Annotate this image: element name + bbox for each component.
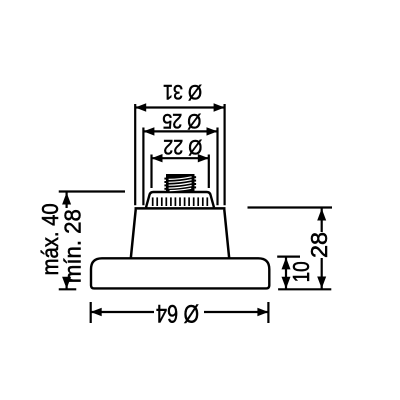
svg-text:Ø 64: Ø 64: [156, 299, 199, 327]
svg-text:mín. 28: mín. 28: [60, 209, 86, 283]
svg-text:Ø 25: Ø 25: [162, 109, 201, 132]
svg-text:28: 28: [306, 232, 332, 258]
svg-text:Ø 31: Ø 31: [163, 80, 202, 103]
svg-text:10: 10: [288, 261, 314, 282]
svg-text:Ø 22: Ø 22: [163, 135, 202, 158]
